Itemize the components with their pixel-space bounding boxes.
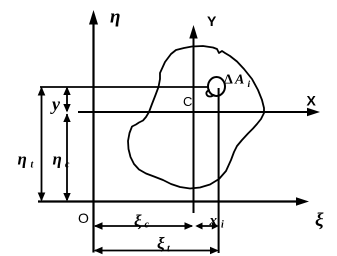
eta axis (vertical, left system) <box>92 22 94 253</box>
svg-text:ξ: ξ <box>157 234 165 253</box>
dim x_i left arrow <box>195 223 202 230</box>
xi axis (horizontal, left system) <box>38 200 298 202</box>
dim y_i up arrow <box>63 87 70 96</box>
X axis arrowhead <box>307 108 320 117</box>
dim xi_t right arrow <box>210 247 219 255</box>
svg-text:C: C <box>183 94 192 109</box>
svg-text:c: c <box>145 220 150 231</box>
svg-text:x: x <box>209 213 218 229</box>
X axis (centroid system) <box>78 111 309 113</box>
dim eta_c line <box>66 114 68 200</box>
svg-text:c: c <box>65 160 70 171</box>
dim y_i line <box>66 88 68 111</box>
xi axis arrowhead <box>296 197 309 206</box>
Y axis arrowhead <box>189 25 197 39</box>
dim x_i right arrow <box>212 223 219 230</box>
svg-text:i: i <box>248 80 251 90</box>
dim xi_c left arrow <box>94 222 103 230</box>
svg-text:i: i <box>221 220 224 231</box>
dim x_i small line <box>197 225 216 227</box>
svg-text:ξ: ξ <box>315 210 324 231</box>
dim xi_c line <box>95 225 192 227</box>
svg-text:Δ: Δ <box>224 73 233 88</box>
dim eta_t down arrow <box>38 193 46 202</box>
svg-text:O: O <box>78 210 89 226</box>
area element circle dA_i <box>208 77 225 96</box>
svg-text:A: A <box>234 73 244 88</box>
svg-text:X: X <box>307 93 317 109</box>
svg-text:η: η <box>18 150 27 169</box>
svg-text:Y: Y <box>207 13 217 29</box>
dim eta_c down arrow <box>63 193 70 202</box>
dim eta_t up arrow <box>38 87 46 96</box>
blob (irregular body outline) <box>128 46 264 189</box>
dim xi_t line <box>95 250 217 252</box>
svg-text:η: η <box>53 150 62 169</box>
x_i vertical line <box>218 88 220 253</box>
area element tail <box>206 90 214 96</box>
svg-text:ξ: ξ <box>134 212 142 231</box>
dim xi_c right arrow <box>185 222 194 230</box>
svg-text:y: y <box>50 94 61 114</box>
y_i level line <box>40 86 209 88</box>
dim y_i down arrow <box>63 104 70 113</box>
svg-text:η: η <box>110 7 120 28</box>
dim eta_c up arrow <box>63 114 70 123</box>
eta axis arrowhead <box>89 10 98 25</box>
Y axis (centroid system) <box>193 37 195 213</box>
dim eta_t line <box>41 88 43 200</box>
dim xi_t left arrow <box>94 247 103 255</box>
